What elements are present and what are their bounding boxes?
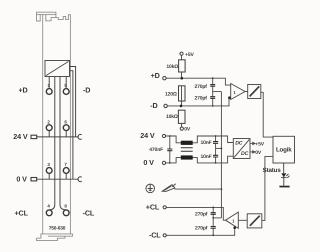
svg-text:24 V: 24 V xyxy=(140,131,155,140)
svg-text:1: 1 xyxy=(233,90,236,95)
svg-text:Status: Status xyxy=(263,167,282,174)
svg-text:10nF: 10nF xyxy=(201,140,212,146)
svg-text:0V: 0V xyxy=(255,150,262,156)
svg-text:0V: 0V xyxy=(184,127,191,133)
svg-text:10kΩ: 10kΩ xyxy=(166,64,178,70)
svg-text:-D: -D xyxy=(150,101,157,110)
svg-text:270pf: 270pf xyxy=(194,84,207,90)
svg-text:8: 8 xyxy=(64,204,67,209)
svg-text:-CL: -CL xyxy=(149,230,161,239)
svg-text:DC: DC xyxy=(235,141,243,147)
svg-text:7: 7 xyxy=(64,162,67,167)
svg-text:+5V: +5V xyxy=(185,52,194,58)
svg-text:-CL: -CL xyxy=(83,209,95,218)
svg-text:750-630: 750-630 xyxy=(49,226,66,232)
svg-text:0 V: 0 V xyxy=(143,158,154,167)
svg-text:DC: DC xyxy=(241,151,249,157)
svg-text:+D: +D xyxy=(151,71,160,80)
svg-text:1: 1 xyxy=(47,83,50,88)
svg-text:10nF: 10nF xyxy=(201,154,212,160)
svg-text:270pf: 270pf xyxy=(194,96,207,102)
svg-text:0 V: 0 V xyxy=(16,174,27,183)
svg-text:2: 2 xyxy=(47,119,50,124)
svg-text:Logik: Logik xyxy=(276,147,292,154)
svg-text:270pf: 270pf xyxy=(195,226,208,232)
svg-text:120Ω: 120Ω xyxy=(165,92,177,98)
svg-text:+D: +D xyxy=(19,86,28,95)
svg-text:-D: -D xyxy=(83,86,90,95)
svg-text:+5V: +5V xyxy=(255,141,264,147)
svg-text:4: 4 xyxy=(47,204,50,209)
svg-text:+CL: +CL xyxy=(15,209,29,218)
svg-text:3: 3 xyxy=(47,162,50,167)
svg-text:5: 5 xyxy=(64,83,67,88)
svg-text:6: 6 xyxy=(64,119,67,124)
svg-text:24 V: 24 V xyxy=(13,132,28,141)
svg-text:270pf: 270pf xyxy=(195,211,208,217)
svg-text:+CL: +CL xyxy=(146,202,160,211)
svg-text:10kΩ: 10kΩ xyxy=(166,114,178,120)
svg-text:470nF: 470nF xyxy=(149,147,163,153)
svg-text:1: 1 xyxy=(232,218,235,223)
